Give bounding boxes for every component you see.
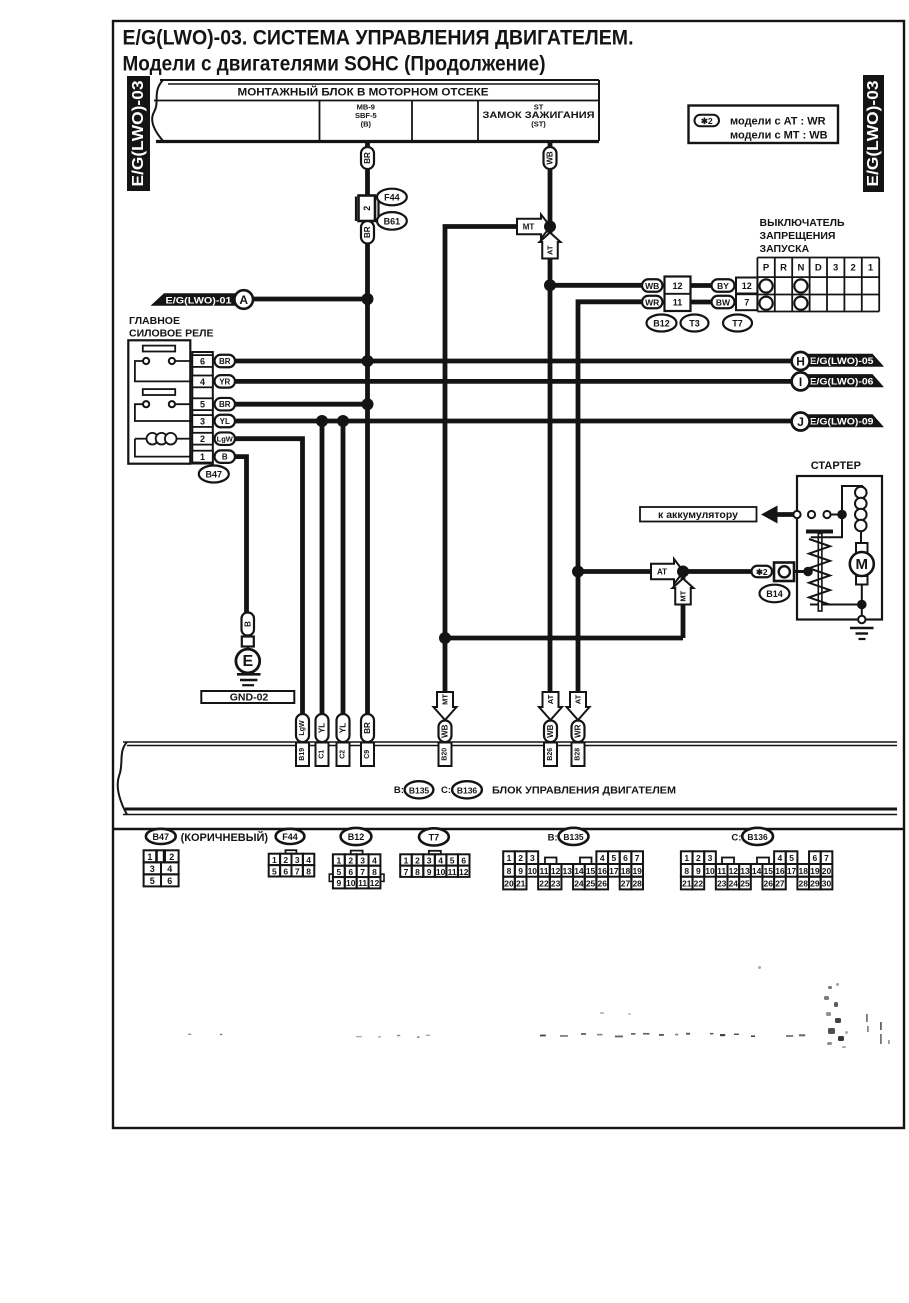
svg-text:BR: BR	[363, 722, 372, 734]
svg-text:AT: AT	[574, 694, 583, 704]
svg-text:1: 1	[336, 855, 341, 865]
svg-text:F44: F44	[282, 832, 298, 842]
svg-text:B:: B:	[394, 785, 404, 796]
svg-text:6: 6	[283, 866, 288, 876]
svg-text:B136: B136	[747, 832, 768, 842]
svg-text:11: 11	[717, 866, 726, 876]
svg-text:7: 7	[360, 867, 365, 877]
svg-text:модели с AT : WR: модели с AT : WR	[730, 116, 826, 128]
svg-text:C2: C2	[340, 750, 347, 759]
svg-text:E/G(LWO)-05: E/G(LWO)-05	[810, 356, 875, 367]
svg-text:4: 4	[778, 853, 783, 863]
svg-text:27: 27	[775, 879, 785, 889]
svg-text:18: 18	[798, 866, 808, 876]
svg-text:YR: YR	[219, 377, 230, 386]
svg-text:3: 3	[200, 417, 205, 427]
svg-text:модели с MT : WB: модели с MT : WB	[730, 130, 828, 142]
svg-text:B47: B47	[206, 470, 223, 480]
svg-text:13: 13	[740, 866, 750, 876]
svg-text:3: 3	[427, 855, 432, 865]
svg-text:B12: B12	[653, 319, 670, 329]
svg-text:2: 2	[415, 855, 420, 865]
svg-text:H: H	[796, 355, 805, 369]
svg-text:YL: YL	[318, 723, 327, 733]
svg-text:B20: B20	[442, 748, 449, 761]
svg-text:12: 12	[729, 866, 739, 876]
svg-text:26: 26	[597, 879, 607, 889]
svg-text:MT: MT	[441, 694, 450, 705]
svg-text:12: 12	[551, 866, 561, 876]
svg-text:J: J	[797, 415, 804, 429]
svg-text:23: 23	[551, 879, 561, 889]
svg-text:B47: B47	[153, 832, 170, 842]
svg-text:BW: BW	[716, 298, 731, 308]
svg-text:LgW: LgW	[217, 435, 234, 444]
svg-text:5: 5	[789, 853, 794, 863]
svg-text:3: 3	[708, 853, 713, 863]
svg-text:18: 18	[621, 866, 631, 876]
svg-text:ЗАПУСКА: ЗАПУСКА	[760, 243, 810, 255]
svg-text:3: 3	[150, 864, 155, 874]
svg-text:C9: C9	[364, 750, 371, 759]
svg-text:26: 26	[764, 879, 774, 889]
svg-text:БЛОК УПРАВЛЕНИЯ ДВИГАТЕЛЕМ: БЛОК УПРАВЛЕНИЯ ДВИГАТЕЛЕМ	[492, 785, 676, 797]
svg-text:Модели с двигателями SOHC (Про: Модели с двигателями SOHC (Продолжение)	[123, 53, 546, 76]
svg-text:1: 1	[868, 262, 874, 273]
svg-text:к аккумулятору: к аккумулятору	[658, 509, 738, 521]
svg-text:7: 7	[824, 853, 829, 863]
svg-text:12: 12	[672, 281, 682, 291]
svg-text:BR: BR	[363, 152, 372, 164]
svg-text:12: 12	[459, 867, 469, 877]
svg-text:B19: B19	[299, 748, 306, 761]
svg-text:4: 4	[167, 864, 172, 874]
svg-text:YL: YL	[339, 723, 348, 733]
svg-text:9: 9	[696, 866, 701, 876]
svg-text:5: 5	[150, 876, 155, 886]
svg-text:25: 25	[740, 879, 750, 889]
svg-text:BR: BR	[219, 400, 231, 409]
svg-text:B:: B:	[548, 832, 558, 843]
svg-text:2: 2	[518, 853, 523, 863]
svg-text:17: 17	[787, 866, 797, 876]
svg-text:WB: WB	[441, 724, 450, 738]
svg-text:11: 11	[358, 878, 367, 888]
svg-text:10: 10	[705, 866, 715, 876]
svg-text:21: 21	[682, 879, 692, 889]
svg-text:22: 22	[694, 879, 704, 889]
svg-text:2: 2	[200, 434, 205, 444]
svg-text:5: 5	[450, 855, 455, 865]
svg-text:I: I	[799, 375, 802, 389]
svg-text:BY: BY	[717, 281, 729, 291]
svg-text:P: P	[763, 262, 770, 273]
svg-text:6: 6	[461, 855, 466, 865]
svg-text:M: M	[856, 556, 869, 573]
svg-text:8: 8	[372, 867, 377, 877]
svg-text:B135: B135	[563, 832, 584, 842]
svg-text:20: 20	[822, 866, 832, 876]
svg-text:MT: MT	[679, 590, 688, 601]
svg-text:B26: B26	[547, 748, 554, 761]
svg-text:E: E	[242, 653, 253, 670]
svg-text:8: 8	[306, 866, 311, 876]
svg-text:14: 14	[574, 866, 584, 876]
svg-text:ЗАПРЕЩЕНИЯ: ЗАПРЕЩЕНИЯ	[760, 230, 836, 242]
svg-text:E/G(LWO)-06: E/G(LWO)-06	[810, 376, 874, 387]
svg-text:AT: AT	[657, 568, 667, 577]
svg-text:16: 16	[597, 866, 607, 876]
svg-text:7: 7	[404, 867, 409, 877]
svg-text:4: 4	[200, 377, 205, 387]
svg-text:BR: BR	[219, 357, 231, 366]
svg-text:9: 9	[336, 878, 341, 888]
svg-text:BR: BR	[363, 226, 372, 238]
svg-text:(КОРИЧНЕВЫЙ): (КОРИЧНЕВЫЙ)	[181, 831, 269, 844]
svg-text:ВЫКЛЮЧАТЕЛЬ: ВЫКЛЮЧАТЕЛЬ	[760, 217, 846, 229]
svg-text:СТАРТЕР: СТАРТЕР	[811, 460, 861, 472]
svg-text:E/G(LWO)-03. СИСТЕМА УПРАВЛЕНИ: E/G(LWO)-03. СИСТЕМА УПРАВЛЕНИЯ ДВИГАТЕЛ…	[123, 27, 634, 50]
svg-text:11: 11	[539, 866, 548, 876]
svg-text:C:: C:	[731, 832, 741, 843]
svg-text:8: 8	[684, 866, 689, 876]
svg-text:6: 6	[200, 357, 205, 367]
svg-text:AT: AT	[546, 694, 555, 704]
svg-text:2: 2	[348, 855, 353, 865]
svg-text:R: R	[780, 262, 787, 273]
svg-text:25: 25	[586, 879, 596, 889]
svg-text:3: 3	[360, 855, 365, 865]
svg-text:30: 30	[822, 879, 832, 889]
svg-text:B: B	[222, 453, 228, 462]
svg-text:GND-02: GND-02	[230, 692, 269, 704]
svg-text:B14: B14	[766, 589, 783, 599]
svg-text:N: N	[797, 262, 804, 273]
svg-text:E/G(LWO)-03: E/G(LWO)-03	[865, 80, 882, 186]
svg-text:B28: B28	[575, 748, 582, 761]
svg-text:3: 3	[295, 855, 300, 865]
svg-text:10: 10	[436, 867, 446, 877]
svg-text:MT: MT	[523, 223, 535, 232]
svg-text:6: 6	[623, 853, 628, 863]
svg-text:T7: T7	[732, 319, 743, 329]
svg-text:(B): (B)	[361, 120, 372, 129]
svg-text:3: 3	[833, 262, 838, 273]
svg-text:5: 5	[200, 400, 205, 410]
svg-text:12: 12	[742, 281, 752, 291]
svg-text:E/G(LWO)-01: E/G(LWO)-01	[166, 295, 233, 306]
svg-text:19: 19	[810, 866, 820, 876]
svg-text:4: 4	[600, 853, 605, 863]
svg-text:22: 22	[539, 879, 549, 889]
svg-text:B12: B12	[348, 832, 365, 842]
svg-text:6: 6	[813, 853, 818, 863]
svg-text:1: 1	[272, 855, 277, 865]
svg-text:15: 15	[764, 866, 774, 876]
svg-text:✱2: ✱2	[701, 116, 713, 126]
svg-text:9: 9	[427, 867, 432, 877]
svg-text:2: 2	[850, 262, 855, 273]
svg-text:17: 17	[609, 866, 619, 876]
svg-text:15: 15	[586, 866, 596, 876]
svg-text:C:: C:	[441, 785, 451, 796]
svg-text:28: 28	[632, 879, 642, 889]
svg-text:6: 6	[167, 876, 172, 886]
svg-text:13: 13	[563, 866, 573, 876]
svg-text:1: 1	[507, 853, 512, 863]
svg-text:B: B	[243, 621, 252, 627]
svg-text:1: 1	[200, 452, 205, 462]
svg-text:1: 1	[147, 852, 152, 862]
svg-text:T7: T7	[429, 832, 440, 842]
svg-text:14: 14	[752, 866, 762, 876]
svg-text:7: 7	[635, 853, 640, 863]
svg-text:29: 29	[810, 879, 820, 889]
svg-text:1: 1	[684, 853, 689, 863]
svg-text:16: 16	[775, 866, 785, 876]
svg-text:1: 1	[404, 855, 409, 865]
svg-text:21: 21	[516, 879, 526, 889]
svg-text:LgW: LgW	[299, 720, 306, 736]
svg-text:9: 9	[518, 866, 523, 876]
svg-text:24: 24	[574, 879, 584, 889]
svg-text:27: 27	[621, 879, 631, 889]
svg-text:7: 7	[744, 297, 749, 307]
svg-text:E/G(LWO)-03: E/G(LWO)-03	[130, 80, 147, 186]
svg-text:7: 7	[295, 866, 300, 876]
svg-text:F44: F44	[384, 193, 400, 203]
svg-text:8: 8	[507, 866, 512, 876]
svg-text:5: 5	[612, 853, 617, 863]
svg-text:24: 24	[729, 879, 739, 889]
svg-text:5: 5	[272, 866, 277, 876]
svg-text:✱2: ✱2	[756, 567, 768, 577]
svg-text:4: 4	[372, 855, 377, 865]
svg-text:4: 4	[306, 855, 311, 865]
svg-text:WB: WB	[546, 724, 555, 738]
svg-text:10: 10	[528, 866, 538, 876]
svg-text:23: 23	[717, 879, 727, 889]
svg-text:2: 2	[696, 853, 701, 863]
svg-text:6: 6	[348, 867, 353, 877]
svg-text:4: 4	[438, 855, 443, 865]
svg-text:12: 12	[370, 878, 380, 888]
svg-text:СИЛОВОЕ РЕЛЕ: СИЛОВОЕ РЕЛЕ	[129, 328, 213, 340]
svg-text:C1: C1	[319, 750, 326, 759]
svg-text:2: 2	[283, 855, 288, 865]
svg-text:20: 20	[504, 879, 514, 889]
svg-text:ГЛАВНОЕ: ГЛАВНОЕ	[129, 315, 180, 327]
svg-text:B135: B135	[409, 785, 430, 795]
svg-text:B61: B61	[384, 216, 401, 226]
svg-text:28: 28	[798, 879, 808, 889]
svg-text:10: 10	[346, 878, 356, 888]
svg-text:5: 5	[336, 867, 341, 877]
svg-text:AT: AT	[546, 245, 555, 255]
svg-text:11: 11	[673, 297, 683, 307]
svg-text:WB: WB	[645, 281, 659, 291]
svg-text:D: D	[815, 262, 822, 273]
svg-text:WB: WB	[546, 151, 555, 165]
svg-text:19: 19	[632, 866, 642, 876]
svg-text:8: 8	[415, 867, 420, 877]
svg-text:T3: T3	[689, 319, 700, 329]
svg-text:YL: YL	[220, 417, 230, 426]
svg-text:2: 2	[362, 206, 372, 211]
svg-text:11: 11	[448, 867, 457, 877]
svg-text:E/G(LWO)-09: E/G(LWO)-09	[810, 417, 874, 428]
svg-text:2: 2	[169, 852, 174, 862]
svg-text:B136: B136	[457, 785, 478, 795]
svg-text:МОНТАЖНЫЙ БЛОК В МОТОРНОМ ОТСЕ: МОНТАЖНЫЙ БЛОК В МОТОРНОМ ОТСЕКЕ	[238, 86, 489, 99]
svg-text:A: A	[239, 293, 248, 307]
svg-text:3: 3	[530, 853, 535, 863]
svg-text:WR: WR	[574, 724, 583, 738]
svg-text:WR: WR	[645, 298, 659, 308]
svg-text:(ST): (ST)	[531, 120, 546, 129]
